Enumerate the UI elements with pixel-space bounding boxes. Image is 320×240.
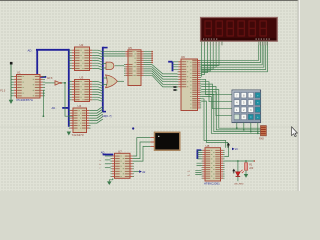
- svg-text:AD..: AD..: [101, 152, 106, 155]
- crystal X1 near U6: [174, 86, 177, 88]
- OR gate G2: [106, 75, 118, 88]
- IC U8: [202, 144, 225, 186]
- junction dot keypad column 3: [250, 131, 252, 133]
- wire U5 to U6 row 4: [144, 71, 178, 82]
- wire node A down to U4: [65, 83, 73, 116]
- wires bus AD to U4 left pins: [68, 111, 71, 129]
- wire U5 to U6 row 2: [144, 67, 178, 77]
- ground below U7: [109, 178, 113, 181]
- wire U1 to inverter input: [45, 82, 55, 84]
- wires bus to U8 upper left pins: [197, 150, 201, 159]
- junction dot keypad column 2: [243, 129, 245, 131]
- wire U5 to U6 row 1: [144, 65, 178, 74]
- wire inverter output to node: [62, 82, 65, 84]
- svg-text:U4: U4: [78, 104, 82, 108]
- pin end ticks U5 stubs: [151, 51, 153, 53]
- wire U8 to resistor R1: [225, 160, 255, 162]
- wires U5 right pins upper stubs: [144, 52, 153, 63]
- junction dot on U4 row wire: [43, 115, 45, 117]
- wire U1 pins to ground rail: [11, 77, 12, 96]
- wire U6 to display digit common 2: [201, 45, 260, 63]
- display pins lower-left group: [200, 41, 203, 45]
- faint horizontal band: [0, 126, 300, 129]
- svg-text:U1: U1: [17, 71, 21, 75]
- window top border: [0, 0, 300, 1]
- wire U6 to keypad row 2: [201, 82, 232, 102]
- svg-text:U7: U7: [118, 149, 122, 153]
- bus AD right vertical along U2/U3/U4: [68, 49, 70, 127]
- IC U5: [124, 46, 144, 86]
- bus AD top horizontal: [36, 49, 69, 51]
- wire U6 to keypad row 3: [201, 84, 232, 109]
- svg-text:U8: U8: [206, 144, 210, 148]
- svg-text:PC16F877A: PC16F877A: [17, 98, 33, 102]
- display pins lower-right group: [257, 41, 260, 45]
- power arrow glyph near LED: [233, 171, 235, 174]
- wire into U7 left 3: [105, 163, 111, 165]
- wire U8 right to power arrow: [225, 148, 229, 157]
- ground arrow below rail: [9, 100, 14, 104]
- bus stub U4 label line: [62, 107, 69, 109]
- junction dot at LED top: [237, 160, 239, 162]
- wire U5 to U6 row 6: [144, 75, 178, 87]
- wire keypad column 1 to resistor pack: [236, 123, 238, 129]
- bus AD stub into U1 top-right: [37, 76, 46, 78]
- wires U4 right pins to bus DB: [91, 107, 103, 124]
- wire keypad column 4 to resistor pack: [257, 123, 259, 134]
- junction dot at R1 top: [245, 160, 247, 162]
- wire U7 to black box 3: [134, 146, 150, 161]
- wires bus DB to G2 inputs: [103, 78, 107, 85]
- svg-text:AD[0..7]: AD[0..7]: [102, 114, 112, 118]
- pin tick end of wire: [254, 160, 255, 161]
- ground arrow below bus AD: [67, 132, 71, 136]
- power arrow near U8: [227, 145, 229, 148]
- net pointer label right of U7: [139, 170, 142, 173]
- svg-text:U2: U2: [80, 43, 84, 47]
- wire U6 to display digit common 6: [201, 45, 267, 72]
- wire into U7 left 1: [105, 155, 111, 157]
- svg-text:LED-RED: LED-RED: [234, 183, 244, 185]
- mouse cursor: [292, 127, 298, 137]
- wires U2 right pins to bus DB: [94, 50, 103, 70]
- wire U5 to U6 row 5: [144, 73, 178, 84]
- bus DB end hook: [103, 111, 106, 113]
- wires into U8 mid left: [197, 163, 202, 165]
- wire U7 right pointer: [134, 171, 139, 173]
- wire U6 to keypad row 1: [201, 79, 232, 94]
- 7-segment display DS1: [201, 18, 278, 42]
- wires crystal to U6: [176, 87, 177, 90]
- IC U2: [71, 43, 95, 70]
- IC U4: [69, 104, 91, 137]
- wires U3 right pins to bus DB: [94, 82, 103, 102]
- IC U7: [111, 149, 135, 178]
- keypad KP1: [232, 90, 261, 123]
- wires bus AD to U3 left pins: [69, 82, 71, 100]
- svg-text:C: C: [236, 116, 238, 119]
- ground rail left of U1: [10, 63, 12, 100]
- resistor pack RP1: [261, 126, 267, 136]
- microcontroller U6: [178, 55, 202, 110]
- wire U6 to resistor pack line 1: [201, 90, 260, 129]
- black box pins: [150, 138, 154, 147]
- svg-text:74LS373: 74LS373: [72, 133, 84, 137]
- bus AD left vertical drop to U1: [36, 49, 38, 77]
- svg-text:int: int: [235, 147, 238, 151]
- wire into U7 left 2: [105, 159, 111, 161]
- svg-text:U3: U3: [80, 76, 84, 80]
- IC U1: [12, 71, 45, 103]
- wire U6 to resistor pack line 3: [201, 94, 260, 131]
- svg-text:220: 220: [249, 167, 254, 170]
- svg-text:AT89C2051: AT89C2051: [204, 182, 220, 186]
- wire LED bottom: [237, 177, 239, 182]
- wires bus DB to U5 upper left pins: [103, 52, 124, 56]
- wire U6 to display digit common 5: [201, 45, 266, 70]
- wire U6 to display digit common 4: [201, 45, 264, 68]
- wire U6 to display segment 4: [201, 45, 210, 71]
- svg-text:RX8: RX8: [259, 138, 264, 141]
- wire U6 to display digit common 1: [201, 45, 259, 61]
- junction dot node A: [64, 82, 66, 84]
- wire U6 to resistor pack line 2: [201, 92, 260, 130]
- wire U1 lower right to U4 row: [43, 90, 45, 116]
- wire U5 to U6 row 3: [144, 69, 178, 79]
- wire U6 to display segment 5: [201, 45, 213, 70]
- bus DB vertical right of U2/U3: [102, 47, 104, 113]
- wire U6 to display segment 6: [201, 45, 216, 68]
- wire U6 to U8 line 2: [201, 101, 228, 148]
- wires bus stub to U6 upper left pins: [173, 62, 178, 70]
- svg-text:U6: U6: [181, 55, 185, 59]
- black box module BX1: [155, 132, 180, 150]
- wire into U7 left 4: [105, 167, 111, 169]
- wire keypad column 2 to resistor pack: [243, 123, 245, 130]
- wire U6 to keypad row 4: [201, 87, 232, 116]
- bus label stub left of U7: [103, 154, 114, 156]
- junction dot keypad column 4: [257, 132, 259, 134]
- svg-text:P1.0: P1.0: [0, 90, 6, 93]
- wire U6 to display segment 2: [201, 45, 204, 75]
- window right border: [298, 0, 299, 191]
- bus stub into U6 P0: [168, 61, 172, 63]
- wire U6 to display segment 3: [201, 45, 207, 73]
- wire G1 output to U5: [115, 65, 124, 67]
- wires into U8 lower left: [195, 170, 201, 174]
- junction dot keypad column 1: [236, 127, 238, 129]
- IC U3: [71, 76, 95, 102]
- wire U7 to black box 1: [134, 138, 150, 156]
- AND gate G1: [106, 62, 114, 69]
- inverter gate right of U1: [55, 81, 60, 85]
- LED D1: [236, 172, 241, 176]
- wires bus DB to G1 inputs: [103, 64, 106, 68]
- svg-text:AD..: AD..: [52, 106, 57, 110]
- bus stub left of U8: [196, 149, 198, 159]
- junction square top of rail: [10, 62, 13, 65]
- resistor R1: [245, 161, 247, 163]
- svg-text:AD..: AD..: [28, 48, 34, 52]
- wire U6 to U8 line 1: [201, 99, 226, 148]
- wire G2 output to U5: [118, 80, 125, 82]
- lone junction dot: [132, 127, 134, 129]
- svg-text:AD 8: AD 8: [47, 77, 53, 80]
- wires bus AD to U2 left pins: [69, 50, 71, 68]
- ground arrow below R1: [244, 174, 248, 178]
- wire U6 to display digit common 3: [201, 45, 262, 65]
- net pointer right of U8: [232, 148, 235, 151]
- wire U6 to display segment 1: [200, 45, 202, 77]
- wire LED top: [237, 161, 239, 172]
- wire U6 to resistor pack line 4: [201, 97, 260, 134]
- wire keypad column 3 to resistor pack: [250, 123, 252, 132]
- wire U6 to display segment 7: [201, 45, 219, 66]
- svg-text:U5: U5: [128, 46, 132, 50]
- wire U7 to black box 2: [134, 142, 150, 159]
